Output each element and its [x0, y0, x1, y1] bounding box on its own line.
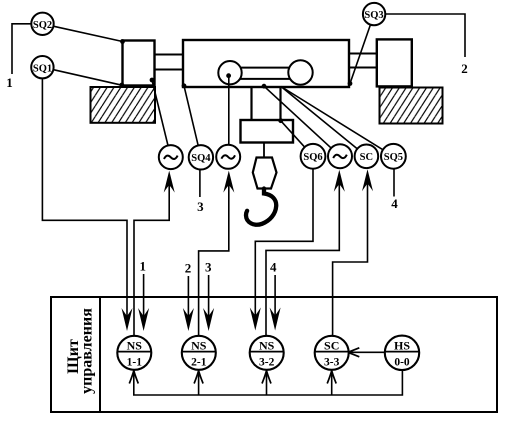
wire NS3-2 output to motor M3 [266, 183, 339, 336]
control panel box [51, 297, 497, 412]
junction dot beam right edge [348, 81, 353, 86]
hook [246, 189, 276, 225]
hook shank [253, 158, 277, 189]
wire HS to SC3-3 [349, 351, 385, 353]
junction dot left truck right edge [150, 78, 155, 83]
svg-text:HS: HS [394, 338, 410, 352]
left axle [155, 55, 184, 70]
arrow into motor M1 [164, 171, 175, 193]
hoist block [241, 120, 294, 143]
wire SQ6 down to panel NS3-2 [255, 156, 313, 324]
svg-text:1: 1 [6, 75, 13, 90]
junction dot hoist block corner [278, 118, 283, 123]
svg-text:SC: SC [324, 338, 339, 352]
arrow into NS1-1 from SQ1 [122, 308, 133, 331]
wire SC3-3 output to brake SC [333, 182, 368, 336]
svg-text:SC: SC [360, 152, 373, 163]
trolley frame [231, 68, 299, 79]
svg-text:управления: управления [79, 308, 96, 394]
wire SQ1 to left end truck [42, 67, 121, 85]
wire beam to SQ5 [281, 87, 393, 157]
arrow bus into NS2-1 [194, 371, 203, 384]
svg-text:1: 1 [140, 259, 147, 274]
svg-text:SQ5: SQ5 [384, 152, 403, 163]
limit switch SQ1 [31, 56, 53, 78]
wire SQ5 to cut label 4 [393, 156, 395, 196]
arrow into motor M3 [334, 170, 345, 192]
wire left truck to motor M1 [152, 80, 171, 157]
wire cut 2 into NS2-1 [187, 276, 189, 325]
svg-text:4: 4 [270, 259, 277, 274]
wire cut 3 into NS2-1 [208, 275, 210, 325]
svg-text:0-0: 0-0 [394, 356, 410, 368]
motor M1 [159, 145, 183, 169]
junction dot left truck bottom [119, 83, 124, 88]
svg-text:NS: NS [127, 338, 143, 352]
starter NS 3-2 [250, 336, 284, 370]
limit switch SQ5 [381, 144, 406, 169]
svg-text:SQ4: SQ4 [191, 153, 211, 164]
junction dot beam bottom at column [262, 84, 267, 89]
wire wheel to hoist motor M2 [228, 76, 230, 145]
left rail support (hatched block) [91, 87, 156, 123]
master switch HS 0-0 [385, 336, 419, 370]
wire SQ3 to cut label 2 [385, 14, 465, 57]
wire NS1-1 output to motor M1 [134, 184, 169, 336]
wire NS2-1 output to motor M2 [199, 184, 229, 336]
brake SC [355, 145, 379, 169]
svg-text:NS: NS [259, 338, 275, 352]
starter NS 2-1 [182, 336, 216, 370]
limit switch SQ4 [189, 145, 213, 169]
right axle [349, 54, 377, 68]
svg-text:SQ2: SQ2 [33, 20, 52, 31]
svg-text:SQ6: SQ6 [303, 152, 322, 163]
arrow into brake SC [362, 169, 373, 191]
svg-text:1-1: 1-1 [127, 356, 143, 368]
svg-text:4: 4 [391, 196, 398, 211]
wire beam to SQ4 [184, 86, 201, 157]
hoist column [252, 87, 281, 120]
svg-text:2: 2 [185, 260, 192, 275]
junction dot beam bottom left [182, 83, 187, 88]
junction dot wheel center [226, 73, 231, 78]
svg-text:SQ3: SQ3 [364, 10, 383, 21]
limit switch SQ2 [31, 13, 53, 35]
svg-text:NS: NS [191, 338, 207, 352]
motor M2 [216, 145, 240, 169]
arrow into motor M2 [223, 171, 234, 193]
wire SQ2 to cut label 1 [12, 24, 43, 74]
svg-text:3: 3 [205, 260, 212, 275]
right end truck [377, 39, 412, 86]
limit switch SQ3 [363, 3, 385, 25]
motor M3 [328, 144, 352, 168]
wire beam to brake SC [281, 87, 366, 157]
wire SQ3 to beam [350, 14, 374, 83]
left end truck [123, 41, 155, 86]
wire cut 1 into NS1-1 [143, 274, 145, 325]
arrow bus into NS3-2 [262, 371, 271, 384]
feedback bus from HS [134, 370, 403, 395]
svg-text:2-1: 2-1 [191, 356, 207, 368]
trolley wheel left [218, 61, 241, 84]
right rail support (hatched block) [380, 88, 443, 124]
hook suspension [263, 143, 265, 159]
limit switch SQ6 [301, 144, 326, 169]
svg-text:3-2: 3-2 [259, 356, 275, 368]
svg-text:SQ1: SQ1 [33, 63, 52, 74]
starter NS 1-1 [117, 336, 151, 370]
svg-text:2: 2 [461, 61, 468, 76]
wire SQ2 to left end truck [43, 24, 123, 42]
arrow into SC3-3 from HS [348, 348, 359, 357]
control panel divider [99, 297, 101, 412]
bridge beam [183, 40, 349, 87]
wire cut 4 into NS3-2 [274, 275, 276, 325]
arrow into NS3-2 from SQ6 [250, 308, 261, 331]
junction dot left truck top [120, 39, 125, 44]
wire SQ1 down to panel NS1-1 [42, 67, 127, 325]
arrow bus into SC3-3 [327, 371, 336, 384]
wire SQ4 to cut label 3 [199, 157, 201, 197]
trolley wheel right [288, 60, 312, 84]
svg-text:3-3: 3-3 [324, 356, 340, 368]
wire beam to motor M3 [264, 86, 340, 156]
wire hoist block to SQ6 [281, 121, 313, 157]
controller SC 3-3 [315, 336, 349, 370]
arrow bus into NS1-1 [129, 371, 138, 384]
svg-text:3: 3 [197, 199, 204, 214]
